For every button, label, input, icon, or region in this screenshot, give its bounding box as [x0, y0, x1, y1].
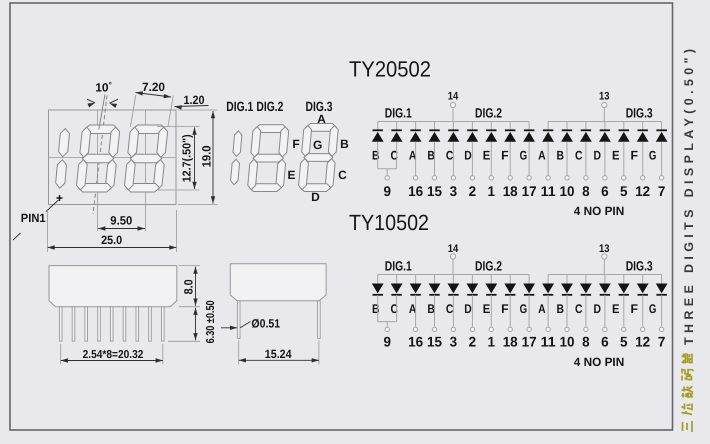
TY20502 schematic: pin 13 wire — [603, 108, 605, 122]
TY10502 schematic: LED diode DIG.1 seg B anode wire — [377, 275, 379, 284]
TY20502 schematic: LED diode DIG.3 seg C triangle — [580, 132, 592, 142]
2.54*8 right arrowhead — [156, 358, 163, 362]
TY20502 schematic: LED diode DIG.3 seg E triangle — [618, 132, 630, 142]
segment diagram DIG.1 segment C — [231, 159, 240, 184]
svg-text:15: 15 — [427, 334, 442, 350]
TY10502 schematic: LED diode DIG.2 seg C anode wire — [452, 275, 454, 284]
TY20502 schematic: LED diode DIG.3 seg A triangle — [542, 132, 554, 142]
svg-text:B: B — [427, 302, 435, 316]
TY10502 schematic: terminal node pin 9 — [385, 327, 389, 331]
front view 10-degree dashed slant line — [93, 96, 107, 215]
TY10502 schematic: LED diode DIG.2 seg D anode wire — [471, 275, 473, 284]
front view digit DIG.3 segment G — [130, 154, 162, 163]
phi 0.51 leader — [240, 322, 250, 328]
front view digit DIG.1 segment B — [59, 129, 70, 157]
TY20502 schematic: wire DIG.3 seg G to terminal — [661, 142, 663, 176]
svg-text:13: 13 — [599, 90, 610, 102]
svg-text:B: B — [557, 302, 565, 316]
svg-text:7: 7 — [658, 334, 666, 350]
svg-text:1: 1 — [488, 183, 496, 199]
TY20502 schematic: LED diode DIG.3 seg F triangle — [637, 132, 649, 142]
TY10502 schematic: terminal node pin 1 — [489, 327, 493, 331]
TY10502 schematic: LED diode DIG.2 seg A triangle — [410, 284, 422, 294]
6.30 bottom arrowhead — [193, 333, 197, 340]
TY10502 schematic: terminal node pin 11 — [546, 327, 550, 331]
TY10502 schematic: LED diode DIG.2 seg A anode wire — [415, 275, 417, 284]
TY20502 schematic: terminal node pin 1 — [489, 176, 493, 180]
svg-text:1: 1 — [488, 334, 496, 350]
svg-text:16: 16 — [408, 334, 423, 350]
TY10502 schematic: LED diode DIG.3 seg G cathode bar — [656, 294, 667, 296]
svg-text:C: C — [575, 149, 583, 163]
TY10502 schematic: LED diode DIG.3 seg B triangle — [561, 284, 573, 294]
12.7 bottom arrowhead — [192, 182, 196, 189]
TY20502 schematic: LED diode DIG.3 seg G triangle — [656, 132, 668, 142]
TY20502 schematic: LED diode DIG.2 seg A triangle — [410, 132, 422, 142]
svg-text:Ø0.51: Ø0.51 — [251, 317, 280, 331]
svg-text:17: 17 — [522, 334, 537, 350]
svg-text:D: D — [594, 149, 602, 163]
TY20502 schematic: LED diode DIG.2 seg F cathode bar — [505, 129, 515, 131]
TY10502 schematic: LED diode DIG.2 seg G cathode bar — [524, 294, 534, 296]
TY10502 schematic: terminal node pin 15 — [432, 327, 436, 331]
TY20502 schematic: pin 14 wire — [452, 108, 454, 122]
svg-text:2: 2 — [469, 334, 477, 350]
10-degree solid reference line — [99, 95, 105, 130]
svg-text:15: 15 — [427, 183, 442, 199]
TY10502 schematic: wire DIG.3 seg F to terminal — [642, 295, 644, 327]
TY20502 schematic: terminal node pin 17 — [527, 176, 531, 180]
19.0 top arrowhead — [211, 111, 215, 118]
TY20502 schematic: LED diode DIG.2 seg F triangle — [504, 132, 516, 142]
TY10502 schematic: LED diode DIG.2 seg F cathode bar — [505, 294, 515, 296]
svg-text:D: D — [464, 149, 472, 163]
front view package outline — [49, 110, 177, 205]
segment diagram DIG.3 segment D — [300, 184, 331, 192]
TY20502 schematic: LED diode DIG.3 seg F cathode bar — [638, 129, 648, 131]
25.0 right extension line — [176, 210, 178, 252]
svg-text:8: 8 — [582, 334, 590, 350]
TY10502 schematic: bracket wire joining DIG.1 B and C — [378, 321, 397, 323]
TY10502 schematic: pin 13 terminal node — [602, 254, 607, 259]
7.20 left arrowhead — [136, 91, 143, 95]
svg-text:C: C — [575, 302, 583, 316]
svg-text:11: 11 — [541, 334, 556, 350]
svg-text:4 NO PIN: 4 NO PIN — [574, 204, 625, 218]
TY10502 schematic: LED diode DIG.3 seg A triangle — [542, 284, 554, 294]
svg-text:10: 10 — [560, 334, 575, 350]
side view pin 1 — [59, 307, 62, 341]
7.20 left extension line — [130, 95, 135, 127]
TY20502 schematic: LED diode DIG.3 seg B triangle — [561, 132, 573, 142]
TY10502 schematic: LED diode DIG.2 seg E triangle — [485, 284, 497, 294]
svg-text:F: F — [630, 302, 638, 316]
TY10502 schematic: LED diode DIG.2 seg C triangle — [448, 284, 460, 294]
TY10502 schematic: LED diode DIG.3 seg C anode wire — [585, 275, 587, 284]
TY20502 schematic: LED diode DIG.2 seg B triangle — [429, 132, 441, 142]
svg-text:8.0: 8.0 — [182, 279, 196, 294]
TY10502 schematic: LED diode DIG.3 seg B cathode bar — [562, 294, 572, 296]
TY10502 schematic: LED diode DIG.3 seg E triangle — [618, 284, 630, 294]
TY10502 schematic: terminal node pin 3 — [451, 327, 455, 331]
TY20502 schematic: LED diode DIG.3 seg D cathode wire — [604, 122, 606, 131]
TY20502 schematic: wire DIG.2 seg B to terminal — [434, 142, 436, 176]
svg-text:B: B — [372, 149, 380, 163]
svg-text:DIG.1: DIG.1 — [385, 105, 412, 120]
svg-text:G: G — [649, 149, 657, 163]
svg-text:E: E — [483, 149, 491, 163]
TY20502 schematic: LED diode DIG.2 seg G cathode bar — [524, 129, 534, 131]
svg-text:25.0: 25.0 — [101, 233, 122, 247]
TY20502 schematic: LED diode DIG.2 seg C cathode wire — [452, 122, 454, 131]
10-degree right arrow — [110, 103, 118, 108]
TY10502 schematic: LED diode DIG.2 seg G triangle — [523, 284, 535, 294]
TY10502 schematic: wire DIG.1 seg B to pin-9 bracket — [377, 295, 379, 322]
TY20502 schematic: LED diode DIG.3 seg G cathode bar — [656, 129, 667, 131]
svg-text:G: G — [520, 149, 528, 163]
svg-text:14: 14 — [448, 90, 459, 102]
front view digit DIG.2 segment A — [85, 125, 118, 134]
TY20502 schematic: wire DIG.2 seg C to terminal — [452, 142, 454, 176]
19.0 bottom extension line — [178, 204, 218, 206]
TY20502 schematic: LED diode DIG.1 seg C cathode bar — [391, 129, 401, 131]
TY10502 schematic: LED diode DIG.3 seg A anode wire — [547, 275, 549, 284]
TY10502 schematic: wire bracket to pin 9 terminal — [386, 322, 388, 328]
front view digit DIG.3 segment B — [157, 127, 168, 157]
TY10502 schematic: terminal node pin 6 — [603, 327, 607, 331]
side view pin 8 — [149, 307, 152, 341]
segment diagram DIG.3 segment C — [325, 159, 335, 190]
side view pin 7 — [136, 307, 139, 341]
TY20502 schematic: LED diode DIG.2 seg C cathode bar — [448, 129, 458, 131]
svg-text:C: C — [446, 302, 454, 316]
TY10502 schematic: LED diode DIG.3 seg C triangle — [580, 284, 592, 294]
segment diagram DIG.3 segment A — [306, 124, 337, 132]
TY20502 schematic: LED diode DIG.3 seg C cathode wire — [585, 122, 587, 131]
sidebar Chinese character SHU (number) — [682, 386, 694, 397]
svg-text:9: 9 — [383, 334, 391, 350]
TY20502 schematic: LED diode DIG.3 seg A cathode bar — [543, 129, 553, 131]
TY20502 schematic: LED diode DIG.2 seg B cathode wire — [434, 122, 436, 131]
svg-text:6: 6 — [601, 183, 609, 199]
TY10502 schematic: LED diode DIG.3 seg B anode wire — [566, 275, 568, 284]
TY10502 schematic: LED diode DIG.2 seg A cathode bar — [410, 294, 420, 296]
front view digit DIG.3 segment D — [126, 184, 159, 193]
TY10502 schematic: LED diode DIG.2 seg E cathode bar — [486, 294, 496, 296]
svg-text:DIG.2: DIG.2 — [475, 105, 502, 120]
svg-text:B: B — [557, 149, 565, 163]
svg-text:F: F — [501, 149, 509, 163]
TY10502 schematic: wire DIG.2 seg B to terminal — [434, 295, 436, 327]
svg-text:F: F — [501, 302, 509, 316]
svg-text:5: 5 — [620, 183, 628, 199]
svg-text:E: E — [612, 302, 620, 316]
TY10502 schematic: LED diode DIG.2 seg C cathode bar — [448, 294, 458, 296]
9.50 dimension line — [98, 228, 145, 230]
TY10502 schematic: terminal node pin 18 — [508, 327, 512, 331]
segment diagram DIG.2 segment E — [248, 159, 258, 189]
svg-text:E: E — [483, 302, 491, 316]
front view horizontal centerline — [49, 157, 177, 159]
TY20502 schematic: terminal node pin 10 — [565, 176, 569, 180]
svg-text:16: 16 — [408, 183, 423, 199]
TY20502 schematic: LED diode DIG.3 seg G cathode wire — [661, 122, 663, 131]
segment diagram DIG.3 segment G — [304, 154, 333, 162]
svg-text:C: C — [338, 168, 347, 182]
svg-text:15.24: 15.24 — [265, 347, 292, 361]
TY20502 schematic: terminal node pin 9 — [385, 176, 389, 180]
front view digit2 vertical centerline — [97, 110, 99, 231]
side view body outline — [49, 266, 177, 307]
7.20 dimension line — [136, 93, 172, 98]
TY10502 schematic: LED diode DIG.3 seg D anode wire — [604, 275, 606, 284]
TY10502 schematic: wire DIG.3 seg E to terminal — [623, 295, 625, 327]
svg-text:D: D — [594, 302, 602, 316]
TY10502 schematic: wire DIG.3 seg C to terminal — [585, 295, 587, 327]
TY10502 schematic: LED diode DIG.2 seg G anode wire — [528, 275, 530, 284]
TY20502 schematic: terminal node pin 7 — [659, 176, 663, 180]
TY10502 schematic: terminal node pin 10 — [565, 327, 569, 331]
front view digit DIG.2 segment C — [106, 160, 117, 190]
svg-text:G: G — [649, 302, 657, 316]
TY10502 schematic: terminal node pin 16 — [413, 327, 417, 331]
svg-text:DIG.2: DIG.2 — [256, 99, 283, 114]
8.0 bottom extension line — [179, 306, 200, 308]
side view pin 9 — [162, 307, 165, 341]
TY20502 schematic: LED diode DIG.2 seg E triangle — [485, 132, 497, 142]
svg-text:A: A — [538, 302, 546, 316]
TY20502 schematic: LED diode DIG.1 seg B triangle — [372, 132, 384, 142]
TY20502 schematic: LED diode DIG.3 seg D cathode bar — [600, 129, 610, 131]
phi 0.51 arrow tail — [221, 327, 237, 329]
TY20502 schematic: LED diode DIG.3 seg F cathode wire — [642, 122, 644, 131]
TY20502 schematic: terminal node pin 11 — [546, 176, 550, 180]
segment diagram DIG.2 segment D — [250, 184, 282, 192]
TY10502 schematic: terminal node pin 8 — [584, 327, 588, 331]
TY10502 schematic: common rail DIG.1+DIG.2 (wire) — [378, 274, 529, 276]
TY20502 schematic: terminal node pin 8 — [584, 176, 588, 180]
TY20502 schematic: LED diode DIG.3 seg B cathode bar — [562, 129, 572, 131]
25.0 right arrowhead — [169, 245, 176, 249]
svg-text:3: 3 — [450, 334, 458, 350]
TY10502 schematic: wire DIG.2 seg C to terminal — [452, 295, 454, 327]
TY10502 schematic: LED diode DIG.2 seg D triangle — [467, 284, 479, 294]
segment diagram DIG.2 segment A — [255, 125, 287, 133]
TY10502 schematic: pin 14 wire — [452, 259, 454, 274]
TY20502 schematic: wire DIG.3 seg D to terminal — [604, 142, 606, 176]
TY10502 schematic: LED diode DIG.3 seg G anode wire — [661, 275, 663, 284]
front view digit DIG.1 segment C — [56, 160, 67, 188]
svg-text:F: F — [292, 137, 299, 151]
TY20502 schematic: wire DIG.3 seg C to terminal — [585, 142, 587, 176]
svg-text:PIN1: PIN1 — [21, 211, 46, 225]
svg-text:DIG.1: DIG.1 — [385, 258, 412, 273]
TY10502 schematic: LED diode DIG.3 seg F cathode bar — [638, 294, 648, 296]
svg-text:DIG.3: DIG.3 — [626, 258, 653, 273]
segment diagram DIG.2 segment B — [279, 127, 289, 157]
19.0 dimension line — [212, 111, 214, 204]
svg-text:G: G — [313, 138, 322, 152]
2.54*8=20.32 dimension line — [61, 360, 163, 362]
TY10502 schematic: terminal node pin 17 — [527, 327, 531, 331]
TY20502 schematic: LED diode DIG.1 seg C cathode wire — [396, 122, 398, 131]
12.7 dimension line — [194, 128, 196, 190]
7.20 right extension line — [168, 96, 173, 128]
TY10502 schematic: LED diode DIG.1 seg C anode wire — [396, 275, 398, 284]
segment diagram DIG.2 segment G — [253, 154, 283, 162]
svg-text:G: G — [520, 302, 528, 316]
TY10502 schematic: LED diode DIG.1 seg B cathode bar — [373, 294, 383, 296]
8.0 top arrowhead — [193, 267, 197, 274]
end view body outline — [230, 264, 326, 301]
svg-text:19.0: 19.0 — [200, 145, 214, 167]
svg-text:8: 8 — [582, 183, 590, 199]
TY20502 schematic: terminal node pin 18 — [508, 176, 512, 180]
svg-text:B: B — [340, 137, 349, 151]
TY20502 schematic: pin 13 terminal node — [602, 102, 607, 107]
svg-text:D: D — [311, 190, 320, 204]
TY10502 schematic: wire DIG.3 seg G to terminal — [661, 295, 663, 327]
front view digit DIG.2 segment F — [80, 127, 91, 157]
TY10502 schematic: wire DIG.2 seg D to terminal — [471, 295, 473, 327]
TY10502 schematic: LED diode DIG.1 seg B triangle — [372, 284, 384, 294]
svg-text:17: 17 — [522, 183, 537, 199]
TY10502 schematic: LED diode DIG.1 seg C triangle — [391, 284, 403, 294]
TY20502 schematic: LED diode DIG.2 seg C triangle — [448, 132, 460, 142]
front view digit DIG.3 segment C — [154, 160, 165, 190]
TY20502 schematic: LED diode DIG.1 seg B cathode wire — [377, 122, 379, 131]
svg-text:7: 7 — [658, 183, 666, 199]
TY20502 schematic: LED diode DIG.2 seg D cathode wire — [471, 122, 473, 131]
TY20502 schematic: wire DIG.2 seg A to terminal — [415, 142, 417, 176]
segment diagram DIG.3 segment F — [302, 126, 312, 157]
svg-text:B: B — [427, 149, 435, 163]
TY20502 schematic: wire DIG.2 seg G to terminal — [528, 142, 530, 176]
svg-text:7.20: 7.20 — [142, 80, 165, 94]
TY20502 schematic: terminal node pin 6 — [603, 176, 607, 180]
segment diagram DIG.2 segment C — [276, 159, 286, 189]
TY10502 schematic: wire DIG.2 seg A to terminal — [415, 295, 417, 327]
6.30 dimension line — [195, 308, 197, 341]
9.50 left arrowhead — [98, 226, 105, 230]
TY10502 schematic: LED diode DIG.2 seg F triangle — [504, 284, 516, 294]
19.0 top extension line — [178, 109, 218, 111]
7.20 right arrowhead — [164, 94, 171, 98]
svg-text:6.30 ±0.50: 6.30 ±0.50 — [205, 300, 217, 343]
1.20 arrow tail line — [175, 106, 209, 107]
19.0 bottom arrowhead — [211, 196, 215, 203]
front view digit DIG.2 segment D — [78, 184, 111, 193]
TY10502 schematic: LED diode DIG.2 seg E anode wire — [490, 275, 492, 284]
svg-text:11: 11 — [541, 183, 556, 199]
svg-text:TY20502: TY20502 — [349, 57, 431, 82]
TY20502 schematic: wire DIG.1 seg C to pin-9 bracket — [396, 142, 398, 169]
TY10502 schematic: common rail DIG.3 (wire) — [548, 274, 662, 276]
TY10502 schematic: LED diode DIG.2 seg B triangle — [429, 284, 441, 294]
TY20502 schematic: wire DIG.3 seg B to terminal — [566, 142, 568, 176]
TY20502 schematic: LED diode DIG.2 seg E cathode bar — [486, 129, 496, 131]
sidebar Chinese character SAN (three) — [683, 421, 693, 432]
svg-text:18: 18 — [503, 334, 518, 350]
TY10502 schematic: wire DIG.1 seg C to pin-9 bracket — [396, 295, 398, 322]
svg-text:E: E — [287, 168, 295, 182]
PIN1 leader line upper — [46, 200, 59, 212]
sidebar rotated title group — [682, 49, 697, 432]
front view digit DIG.3 segment F — [128, 127, 139, 157]
TY10502 schematic: LED diode DIG.3 seg E anode wire — [623, 275, 625, 284]
segment diagram DIG.3 segment B — [328, 126, 338, 157]
TY20502 schematic: terminal node pin 12 — [641, 176, 645, 180]
TY20502 schematic: LED diode DIG.3 seg B cathode wire — [566, 122, 568, 131]
TY10502 schematic: LED diode DIG.2 seg B anode wire — [434, 275, 436, 284]
PIN1 leader line lower — [13, 233, 21, 240]
segment diagram DIG.1 segment B — [233, 131, 242, 156]
TY20502 schematic: LED diode DIG.3 seg D triangle — [599, 132, 611, 142]
svg-text:14: 14 — [448, 243, 459, 255]
12.7 top extension line — [157, 126, 200, 128]
side view pin 4 — [98, 307, 101, 341]
TY10502 schematic: LED diode DIG.3 seg A cathode bar — [543, 294, 553, 296]
front view digit DIG.3 segment A — [133, 125, 166, 134]
TY20502 schematic: bracket wire joining DIG.1 B and C — [378, 168, 397, 170]
TY20502 schematic: wire DIG.3 seg E to terminal — [623, 142, 625, 176]
segment diagram DIG.2 segment F — [251, 127, 261, 157]
sidebar Chinese character WEI (position) — [682, 404, 693, 415]
8.0 bottom arrowhead — [193, 299, 197, 306]
12.7 top arrowhead — [192, 128, 196, 135]
TY20502 schematic: wire bracket to pin 9 terminal — [386, 169, 388, 176]
TY10502 schematic: terminal node pin 5 — [622, 327, 626, 331]
TY20502 schematic: LED diode DIG.2 seg G triangle — [523, 132, 535, 142]
25.0 left arrowhead — [48, 245, 55, 249]
TY10502 schematic: LED diode DIG.3 seg G triangle — [656, 284, 668, 294]
TY20502 schematic: wire DIG.3 seg A to terminal — [547, 142, 549, 176]
TY20502 schematic: LED diode DIG.2 seg E cathode wire — [490, 122, 492, 131]
svg-text:9: 9 — [383, 183, 391, 199]
TY20502 schematic: LED diode DIG.3 seg E cathode wire — [623, 122, 625, 131]
TY20502 schematic: common rail DIG.3 (wire) — [548, 121, 662, 123]
9.50 right arrowhead — [138, 226, 145, 230]
TY20502 schematic: terminal node pin 5 — [622, 176, 626, 180]
side view pin 5 — [110, 307, 113, 341]
svg-text:9.50: 9.50 — [110, 214, 132, 228]
side view pin 3 — [85, 307, 88, 341]
TY20502 schematic: wire DIG.2 seg F to terminal — [509, 142, 511, 176]
front view digit DIG.3 segment E — [125, 160, 136, 190]
svg-text:12.7(.50"): 12.7(.50") — [182, 134, 194, 182]
TY20502 schematic: wire DIG.2 seg E to terminal — [490, 142, 492, 176]
2.54*8 left arrowhead — [61, 358, 68, 362]
TY20502 schematic: pin 14 terminal node — [450, 102, 455, 107]
svg-text:5: 5 — [620, 334, 628, 350]
15.24 right arrowhead — [312, 358, 319, 362]
10-degree left arrow tail — [87, 99, 95, 103]
15.24 right extension line — [318, 341, 320, 365]
25.0 dimension line — [48, 247, 177, 249]
TY20502 schematic: LED diode DIG.2 seg D cathode bar — [467, 129, 477, 131]
TY20502 schematic: terminal node pin 15 — [432, 176, 436, 180]
svg-text:TY10502: TY10502 — [349, 210, 429, 235]
TY20502 schematic: wire DIG.2 seg D to terminal — [471, 142, 473, 176]
svg-text:DIG.2: DIG.2 — [475, 258, 502, 273]
TY10502 schematic: LED diode DIG.3 seg D cathode bar — [600, 294, 610, 296]
15.24 dimension line — [239, 359, 319, 361]
10-degree left arrow — [88, 103, 96, 108]
end view right pin — [318, 301, 321, 339]
8.0 top extension line — [179, 265, 200, 267]
TY20502 schematic: LED diode DIG.3 seg E cathode bar — [619, 129, 629, 131]
TY10502 schematic: terminal node pin 2 — [470, 327, 474, 331]
